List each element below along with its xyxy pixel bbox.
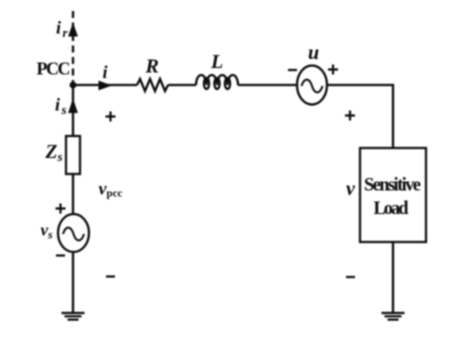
- polarity - of v_pcc: [106, 275, 115, 277]
- svg-text:R: R: [145, 56, 159, 78]
- svg-text:v: v: [346, 178, 356, 200]
- ground (left): [62, 313, 85, 320]
- polarity - of v_s: [56, 254, 65, 256]
- source u (AC voltage source): [297, 66, 327, 105]
- svg-text:s: s: [57, 149, 63, 164]
- wire: source v_s to left ground: [72, 252, 74, 313]
- inductor L (loop coil): [196, 75, 238, 85]
- polarity + of u: [328, 65, 338, 75]
- label i_r: [56, 18, 69, 41]
- wire: source u to corner, down to load: [327, 85, 393, 148]
- svg-text:Z: Z: [45, 142, 58, 163]
- wire: load box to right ground: [392, 242, 394, 313]
- svg-text:i: i: [55, 95, 60, 115]
- wire: Zs box to source v_s: [72, 174, 74, 214]
- svg-text:i: i: [103, 62, 108, 82]
- arrow i_s (up, toward node): [69, 100, 77, 113]
- svg-text:Load: Load: [374, 199, 410, 219]
- resistor R: [137, 79, 168, 91]
- load box: Sensitive Load: [360, 148, 426, 242]
- polarity + of v_s: [56, 204, 66, 214]
- arrow i (right, on top wire): [99, 81, 111, 89]
- node PCC (junction dot): [70, 82, 77, 89]
- svg-text:PCC: PCC: [37, 59, 71, 79]
- polarity - of v: [346, 276, 355, 278]
- wire: PCC node to resistor: [73, 84, 137, 86]
- arrow i_r (up, on dashed riser): [69, 24, 77, 36]
- ground (right): [382, 313, 405, 320]
- svg-text:s: s: [61, 102, 67, 117]
- label i_s: [55, 95, 67, 118]
- svg-text:L: L: [210, 51, 223, 73]
- label v_pcc: [99, 179, 123, 200]
- polarity + of v: [345, 111, 355, 121]
- wire: resistor to inductor: [168, 84, 196, 86]
- svg-text:i: i: [56, 18, 61, 38]
- impedance Z_s box: [66, 136, 80, 174]
- svg-text:pcc: pcc: [107, 188, 123, 200]
- svg-text:s: s: [47, 228, 53, 242]
- wire: PCC node down to Zs box: [72, 85, 74, 136]
- svg-text:Sensitive: Sensitive: [364, 176, 421, 196]
- label v_s: [41, 221, 54, 242]
- polarity - of u: [288, 69, 297, 71]
- wire: dashed riser above PCC node: [72, 11, 74, 85]
- svg-text:r: r: [63, 25, 69, 40]
- polarity + of v_pcc: [106, 112, 116, 122]
- source v_s (AC voltage source): [58, 214, 89, 252]
- label Z_s: [45, 142, 63, 164]
- wire: inductor to source u: [238, 84, 297, 86]
- svg-text:u: u: [308, 42, 319, 64]
